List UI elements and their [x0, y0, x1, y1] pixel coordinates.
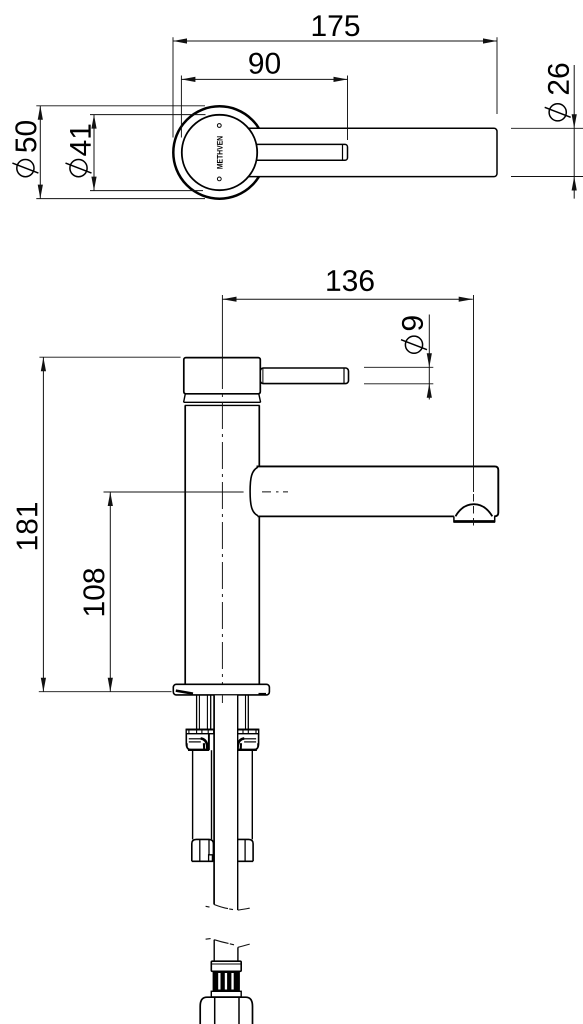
hose end crimp collar [211, 961, 241, 971]
dimension 136 [223, 297, 473, 302]
hose break symbol lower [206, 939, 250, 948]
top view handle lever [246, 144, 348, 160]
left mounting tail assembly [186, 695, 214, 862]
body axis centerline [221, 295, 223, 702]
dimension Ø9 [364, 315, 433, 400]
hose end lower collar [211, 991, 241, 997]
side view body column [185, 405, 259, 684]
dimension Ø50 [36, 106, 205, 199]
dimension 181 [39, 357, 181, 692]
top view inner cap circle (Ø41) [182, 115, 257, 190]
dimension 90 [181, 76, 347, 141]
METHVEN logo text [217, 136, 223, 168]
dimension 108 [104, 492, 244, 692]
hose break symbol upper [206, 905, 250, 911]
central flexible hose [214, 695, 238, 910]
right mounting tail assembly (mirrored) [231, 695, 259, 862]
spout horizontal centerline [262, 491, 288, 493]
hose lower stub [214, 940, 238, 962]
hose end ribbed sleeve [213, 971, 240, 991]
base flange [173, 684, 269, 695]
side view cartridge cap [184, 358, 260, 394]
aerator [454, 504, 496, 521]
hose end hex nut [200, 997, 252, 1024]
dimension Ø26 [511, 65, 583, 199]
side view spout [250, 466, 498, 516]
cap screw dot top [217, 124, 221, 128]
top view outer body circle (Ø50) [173, 106, 265, 198]
side view handle lever [260, 368, 348, 384]
dimension 175 [173, 37, 497, 137]
top view spout body [246, 128, 497, 176]
spout outlet centerline [473, 295, 475, 528]
cap screw dot bottom [217, 177, 221, 181]
side view neck rings [184, 394, 261, 406]
dimension Ø41 [90, 115, 206, 191]
hose centerline stub below flange [221, 695, 223, 703]
